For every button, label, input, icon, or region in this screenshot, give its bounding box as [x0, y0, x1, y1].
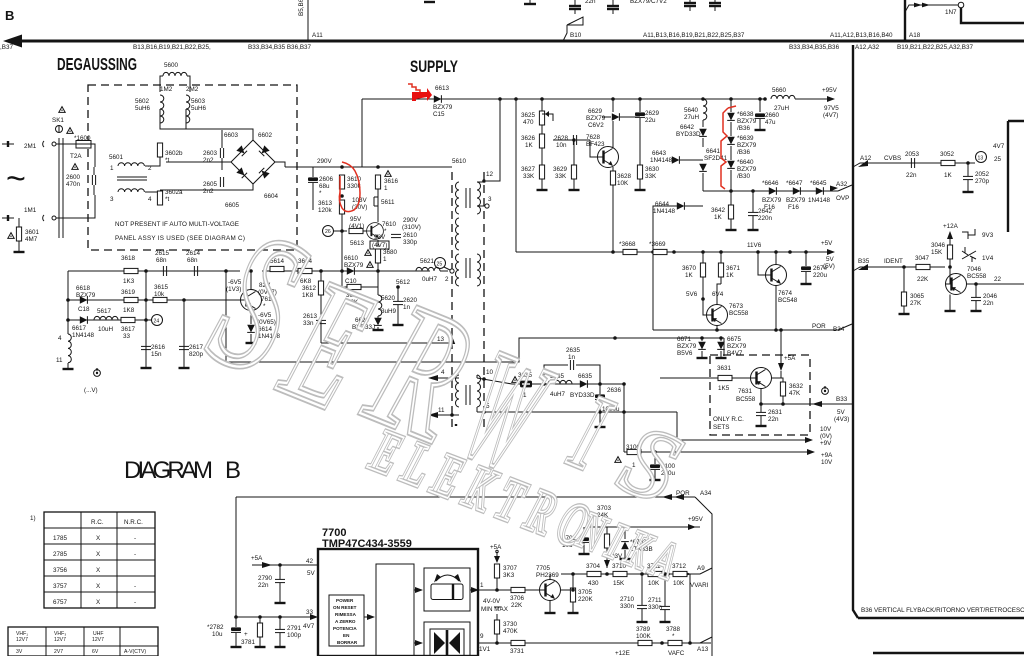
wire VVARI down: [689, 574, 691, 643]
svg-text:+12E: +12E: [615, 650, 630, 656]
svg-text:6613: 6613: [435, 85, 450, 92]
svg-text:25: 25: [437, 262, 443, 268]
svg-text:2n2: 2n2: [203, 157, 214, 164]
wire 33V feed row: [585, 526, 700, 528]
pin circle top right: [958, 2, 964, 8]
watermark letter R: [344, 262, 497, 481]
svg-text:-: -: [134, 551, 136, 558]
wire 7046 right: [967, 283, 1024, 285]
svg-text:15n: 15n: [151, 351, 162, 358]
wire long y362: [226, 338, 624, 362]
svg-text:NOT PRESENT IF AUTO MULTI-VOLT: NOT PRESENT IF AUTO MULTI-VOLTAGE: [115, 221, 239, 228]
junction row2 x68: [66, 298, 70, 302]
mains separation bars: [58, 138, 60, 238]
svg-text:2M1: 2M1: [24, 143, 37, 150]
svg-text:A11,A12,B13,B16,B40: A11,A12,B13,B16,B40: [830, 32, 893, 39]
wire coils to bridge top: [160, 109, 253, 140]
transistor 7614: [241, 290, 262, 311]
capacitor 2617 820p: [179, 346, 189, 349]
svg-text:2V7: 2V7: [54, 649, 63, 655]
svg-text:*6646: *6646: [762, 180, 779, 187]
svg-text:97V5: 97V5: [824, 105, 839, 112]
svg-text:/B36: /B36: [737, 149, 750, 156]
circle 26: [323, 226, 334, 237]
wire 7614 collector up: [250, 271, 252, 290]
svg-text:1N4148: 1N4148: [808, 197, 831, 204]
svg-text:6605: 6605: [225, 202, 240, 209]
svg-text:3730: 3730: [503, 621, 518, 628]
wire 7705 collector: [549, 574, 551, 580]
watermark letter W: [442, 315, 572, 506]
wire 5603 down: [185, 109, 187, 129]
junction POR x717: [715, 328, 719, 332]
svg-text:SK1: SK1: [52, 117, 64, 124]
capacitor 2052 270p: [963, 176, 973, 179]
svg-text:3602a: 3602a: [165, 189, 183, 196]
junction 3614 right: [319, 269, 323, 273]
wire 7673 collector: [717, 284, 721, 305]
wire bridge left: [166, 161, 231, 163]
resistor 3065 27K: [901, 292, 906, 306]
svg-text:27uH: 27uH: [774, 105, 790, 112]
wire pin33 row: [236, 616, 318, 618]
svg-text:25: 25: [994, 156, 1002, 163]
svg-text:4V7: 4V7: [303, 623, 315, 630]
wire 1M1: [2, 217, 14, 219]
svg-text:1K: 1K: [525, 142, 534, 149]
svg-text:3731: 3731: [510, 648, 525, 655]
zener 6671 BZX79 B5V6: [701, 338, 703, 341]
svg-text:470: 470: [523, 119, 534, 126]
transformer 5610 dashed core right: [483, 172, 485, 428]
svg-text:7628: 7628: [586, 134, 601, 141]
wire 3613 down: [341, 214, 343, 271]
svg-text:22n: 22n: [258, 582, 269, 589]
svg-text:+95V: +95V: [688, 516, 704, 523]
svg-text:1: 1: [384, 185, 388, 192]
diode 6610 BZX79: [347, 267, 355, 275]
svg-text:33: 33: [123, 333, 131, 340]
svg-text:3602b: 3602b: [165, 150, 183, 157]
svg-text:*3668: *3668: [619, 241, 636, 248]
transformer 5610 dashed core left: [451, 172, 453, 428]
svg-text:F16: F16: [764, 204, 775, 211]
svg-text:3642: 3642: [711, 207, 726, 214]
resistor 3712 10K: [673, 571, 687, 576]
ground 3601: [14, 251, 25, 253]
resistor 3629 33K: [573, 140, 575, 165]
vertical feed x516: [515, 99, 517, 252]
svg-text:C15: C15: [433, 111, 445, 118]
svg-text:3613: 3613: [318, 200, 333, 207]
diode 6641 SF2D41: [702, 138, 704, 147]
svg-text:22n: 22n: [768, 416, 779, 423]
svg-text:10u: 10u: [212, 631, 223, 638]
svg-text:EN: EN: [343, 633, 350, 638]
svg-text:5V: 5V: [826, 256, 835, 263]
svg-text:6V: 6V: [92, 649, 99, 655]
svg-text:BZX79: BZX79: [586, 115, 606, 122]
svg-text:270p: 270p: [975, 178, 990, 185]
svg-text:PANEL ASSY IS USED (SEE DIAGRA: PANEL ASSY IS USED (SEE DIAGRAM C): [115, 235, 245, 242]
svg-text:*6638: *6638: [737, 111, 754, 118]
svg-text:430: 430: [588, 580, 599, 587]
svg-text:3052: 3052: [940, 151, 955, 158]
wire 3680 down: [377, 263, 379, 271]
transistor 7610: [367, 223, 384, 240]
svg-text:+5A: +5A: [251, 555, 263, 562]
svg-text:A-V(CTV): A-V(CTV): [124, 649, 146, 655]
junction 2052: [966, 161, 970, 165]
watermark letter S2: [606, 403, 696, 525]
svg-text:3616: 3616: [384, 178, 399, 185]
svg-text:(0V): (0V): [820, 433, 832, 440]
svg-text:B: B: [225, 457, 244, 484]
svg-text:6635: 6635: [578, 373, 593, 380]
wire 3680 to 5620: [377, 271, 379, 295]
svg-text:1K: 1K: [714, 214, 723, 221]
transistor 7673 BC558: [707, 305, 728, 326]
enclosure left border: [235, 497, 237, 617]
wire 7674 emitter: [775, 286, 777, 331]
arrows POR A34: [662, 494, 672, 500]
svg-text:3705: 3705: [578, 589, 593, 596]
junction POR x776: [774, 328, 778, 332]
wire x624 vertical: [623, 384, 625, 452]
svg-text:R.C.: R.C.: [91, 519, 104, 526]
svg-text:4V7: 4V7: [993, 143, 1005, 150]
svg-text:7673: 7673: [729, 303, 744, 310]
resistor 3602b: [157, 143, 162, 157]
svg-text:13: 13: [978, 156, 984, 162]
svg-text:1: 1: [110, 165, 114, 172]
entry A32 OVP: [838, 185, 852, 191]
svg-text:6643: 6643: [652, 150, 667, 157]
svg-text:*t: *t: [165, 157, 169, 164]
wire stub vertical A11: [307, 0, 309, 40]
svg-text:BC558: BC558: [729, 310, 749, 317]
dashed box ONLY RC SETS: [710, 355, 810, 435]
resistor 3631 1K5: [718, 375, 732, 380]
svg-text:3V: 3V: [16, 649, 23, 655]
svg-text:470n: 470n: [66, 181, 81, 188]
wire 7628 collector: [612, 121, 614, 148]
svg-text:68n: 68n: [187, 257, 198, 264]
svg-text:330n: 330n: [620, 603, 635, 610]
svg-text:2614: 2614: [186, 250, 201, 257]
svg-text:5640: 5640: [684, 107, 699, 114]
svg-text:3706: 3706: [510, 595, 525, 602]
ground circle B33: [822, 386, 829, 394]
svg-text:3046: 3046: [931, 242, 946, 249]
box bottom right partial: [873, 652, 1024, 654]
svg-text:1n: 1n: [568, 354, 576, 361]
box B36 bottom: [858, 617, 1024, 619]
svg-text:B: B: [5, 8, 14, 23]
svg-text:22n: 22n: [585, 0, 596, 5]
wire row2 y300: [68, 299, 240, 301]
svg-text:(5V): (5V): [823, 263, 835, 270]
red loop around 3610: [339, 162, 360, 212]
svg-text:6602: 6602: [258, 132, 273, 139]
svg-text:5V6: 5V6: [686, 291, 698, 298]
ground 2616: [141, 367, 152, 369]
transistor 7628: [598, 147, 619, 168]
circle 25: [435, 258, 446, 269]
diode 6629 zener: [612, 113, 620, 121]
svg-text:2711: 2711: [648, 597, 662, 604]
coil 5640 27uH: [701, 97, 705, 101]
wire 7674 base from 5V rail: [758, 252, 766, 275]
svg-text:7674: 7674: [778, 290, 793, 297]
wire pin5 row y412: [484, 411, 677, 413]
waveform 9V3: [962, 229, 975, 239]
svg-text:1K: 1K: [944, 172, 953, 179]
svg-text:68n: 68n: [156, 257, 167, 264]
capacitor 2610 330p: [391, 234, 401, 237]
resistor 3601 4M7: [8, 233, 14, 239]
wire bus B thick horizontal: [14, 40, 1024, 43]
svg-text:2628: 2628: [554, 135, 569, 142]
box right edge partial: [1008, 121, 1024, 232]
capacitor stub top 715: [714, 0, 716, 3]
svg-text:22K: 22K: [917, 276, 929, 283]
capacitor 2702 10u: [579, 537, 589, 542]
svg-text:BZX79: BZX79: [786, 197, 806, 204]
arrow B33 wire: [812, 401, 822, 407]
svg-text:3625: 3625: [521, 112, 536, 119]
dot mark below: [455, 424, 457, 426]
diode 6635 BYD33D: [580, 380, 588, 388]
wire bridge right to 290V: [275, 162, 285, 167]
svg-text:2046: 2046: [983, 293, 998, 300]
svg-text:7046: 7046: [967, 266, 982, 273]
svg-text:3631: 3631: [717, 365, 732, 372]
svg-text:3047: 3047: [915, 255, 930, 262]
wire 3601: [18, 218, 20, 227]
wire POR y330: [653, 329, 838, 331]
coil 5602: [160, 95, 164, 123]
svg-text:3632: 3632: [789, 383, 804, 390]
junction x790: [788, 250, 792, 254]
svg-text:6757: 6757: [53, 599, 68, 606]
resistor 3711 10K: [648, 571, 662, 576]
wire pin10 row y384: [512, 383, 624, 385]
junction row3 x68: [66, 318, 70, 322]
svg-text:9: 9: [480, 633, 484, 640]
svg-text:2052: 2052: [975, 171, 990, 178]
wire main row y574: [561, 573, 695, 575]
svg-text:2790: 2790: [258, 575, 273, 582]
svg-text:*2782: *2782: [207, 624, 224, 631]
svg-text:12: 12: [486, 171, 494, 178]
panel divider vertical: [853, 45, 858, 618]
svg-text:BC548: BC548: [778, 297, 798, 304]
resistor 3627 33K: [539, 165, 544, 179]
winding 4-11 left: [68, 334, 71, 363]
svg-text:3uH9: 3uH9: [381, 308, 397, 315]
diode 6613: [434, 95, 442, 103]
svg-text:-: -: [134, 599, 136, 606]
svg-text:*6647: *6647: [786, 180, 803, 187]
ground mark top edge: [424, 1, 435, 3]
warn triangle 3616: [385, 171, 391, 177]
resistor 3615 10k: [153, 297, 167, 302]
junction 6610 x342: [340, 269, 344, 273]
arrow 3625 wiper: [542, 114, 553, 121]
svg-text:POR: POR: [812, 323, 826, 330]
zener 6675 BZX79 B4V7: [720, 338, 722, 341]
svg-text:15K: 15K: [613, 580, 625, 587]
vertical x146: [145, 271, 147, 368]
svg-text:10K: 10K: [617, 180, 629, 187]
svg-text:B34: B34: [833, 326, 845, 333]
svg-text:470K: 470K: [503, 628, 519, 635]
svg-text:1): 1): [30, 515, 36, 522]
wire +5A down: [780, 352, 782, 370]
svg-text:2791: 2791: [287, 625, 302, 632]
ground 7614: [250, 334, 252, 343]
wire row3 y320: [68, 319, 146, 321]
ground 4-11: [63, 368, 74, 370]
svg-text:1: 1: [480, 582, 484, 589]
capacitor 2660 47u: [758, 97, 762, 101]
svg-text:4M7: 4M7: [25, 236, 38, 243]
svg-text:3756: 3756: [53, 567, 68, 574]
svg-text:3781: 3781: [241, 639, 256, 646]
wire 7046 emitter gnd: [949, 295, 951, 311]
watermark letter I: [556, 372, 626, 495]
pin 4 wire arrow: [428, 375, 438, 381]
svg-text:3671: 3671: [726, 265, 741, 272]
svg-text:BZX79: BZX79: [737, 118, 757, 125]
arrow column to volume: [414, 589, 422, 591]
wire +95V arrow: [795, 98, 834, 100]
svg-text:BC558: BC558: [967, 273, 987, 280]
svg-text:27uH: 27uH: [684, 114, 700, 121]
resistor 3671 1K: [718, 263, 723, 277]
diode 6644 1N4148: [677, 202, 685, 210]
resistor 3628 10K: [610, 171, 615, 185]
wire 3616 down: [377, 189, 379, 222]
capacitor 2674 220u: [801, 266, 811, 271]
entry A9: [695, 568, 712, 574]
svg-text:6641: 6641: [706, 148, 721, 155]
capacitor 2636 1000u: [595, 394, 605, 399]
diode 6618 BZX79: [80, 296, 88, 304]
capacitor 2791 100p: [275, 629, 285, 632]
svg-text:24: 24: [154, 319, 160, 325]
svg-text:1N4148: 1N4148: [653, 208, 676, 215]
svg-text:1K: 1K: [685, 272, 694, 279]
transistor 7674 BC548: [766, 265, 787, 286]
svg-text:3619: 3619: [121, 289, 136, 296]
svg-text:VAFC: VAFC: [668, 650, 685, 656]
svg-text:3627: 3627: [521, 166, 536, 173]
svg-text:2605: 2605: [203, 181, 218, 188]
svg-text:10V: 10V: [821, 459, 833, 466]
svg-text:3757: 3757: [53, 583, 68, 590]
wire 7631 emitter down: [760, 389, 762, 405]
wire 3671 down: [720, 277, 722, 284]
svg-text:BZX79: BZX79: [762, 197, 782, 204]
svg-text:VVARI: VVARI: [690, 582, 709, 589]
wire 2600: [93, 167, 95, 175]
svg-text:1K: 1K: [726, 272, 735, 279]
transistor 7046 BC558: [946, 274, 967, 295]
resistor 3617 33: [121, 317, 135, 322]
svg-text:BYD33D: BYD33D: [570, 392, 595, 399]
capacitor 2631 22n: [756, 412, 766, 415]
wire 5613 to 7610: [363, 230, 368, 232]
svg-text:3789: 3789: [636, 626, 651, 633]
svg-text:6675: 6675: [727, 336, 742, 343]
svg-text:330n: 330n: [648, 604, 663, 611]
coil 5660 27uH: [771, 95, 795, 99]
svg-text:15K: 15K: [931, 249, 943, 256]
svg-text:B33,B34,B35 B36,B37: B33,B34,B35 B36,B37: [248, 44, 312, 51]
svg-text:PH2369: PH2369: [536, 572, 559, 579]
flag B10: [563, 25, 567, 41]
svg-text:10V: 10V: [820, 426, 832, 433]
wire 5600 right leg: [187, 76, 190, 92]
wire 3046 down to base: [949, 259, 951, 267]
capacitor 2046 22n: [971, 297, 981, 300]
svg-text:2615: 2615: [155, 250, 170, 257]
wire +B rail y99: [362, 98, 765, 100]
resistor 3052 1K: [941, 160, 955, 165]
svg-text:BZX79: BZX79: [727, 343, 747, 350]
wire +5A down: [496, 552, 498, 561]
wire 11V6 bus: [516, 251, 790, 253]
pin 2 circle: [450, 269, 454, 273]
svg-text:C6V2: C6V2: [588, 122, 604, 129]
svg-text:10n: 10n: [556, 142, 567, 149]
wire 3612: [320, 271, 322, 281]
fuse 5611: [374, 197, 378, 206]
svg-text:A32: A32: [836, 181, 848, 188]
wire 290V bus: [285, 166, 452, 168]
svg-text:DEGAUSSING: DEGAUSSING: [57, 54, 137, 74]
dash mark: [494, 606, 501, 608]
svg-text:7610: 7610: [382, 221, 397, 228]
red mark zener chain: [721, 108, 728, 189]
watermark word ELEKTRONIKA: [361, 416, 606, 565]
svg-text:1M2: 1M2: [160, 86, 173, 93]
resistor 3710 15K: [613, 571, 627, 576]
wire +5V arrow: [790, 251, 834, 253]
junction rail x542: [540, 97, 544, 101]
box top right partial: [961, 8, 1024, 23]
svg-text:B33,B34,B35,B36: B33,B34,B35,B36: [789, 44, 840, 51]
svg-text:3065: 3065: [910, 293, 925, 300]
wire row1 to 6610: [335, 270, 430, 272]
svg-text:100p: 100p: [287, 632, 302, 639]
svg-text:B4V7: B4V7: [727, 350, 743, 357]
pin 10 wire: [476, 375, 478, 378]
svg-text:~: ~: [6, 160, 26, 198]
svg-text:B36 VERTICAL FLYBACK/RITORNO V: B36 VERTICAL FLYBACK/RITORNO VERT/RETROC…: [861, 607, 1024, 614]
wire pin12 stub: [477, 181, 484, 183]
entry A13: [690, 637, 712, 643]
wire row1 y271: [68, 270, 240, 272]
svg-text:1K8: 1K8: [123, 307, 135, 314]
warn triangle 1600: [67, 128, 73, 134]
chassis ground symbol: [94, 368, 101, 376]
wire 7674 collector: [775, 252, 777, 265]
svg-text:6642: 6642: [680, 124, 695, 131]
degaussing dashed enclosure: [88, 85, 297, 250]
